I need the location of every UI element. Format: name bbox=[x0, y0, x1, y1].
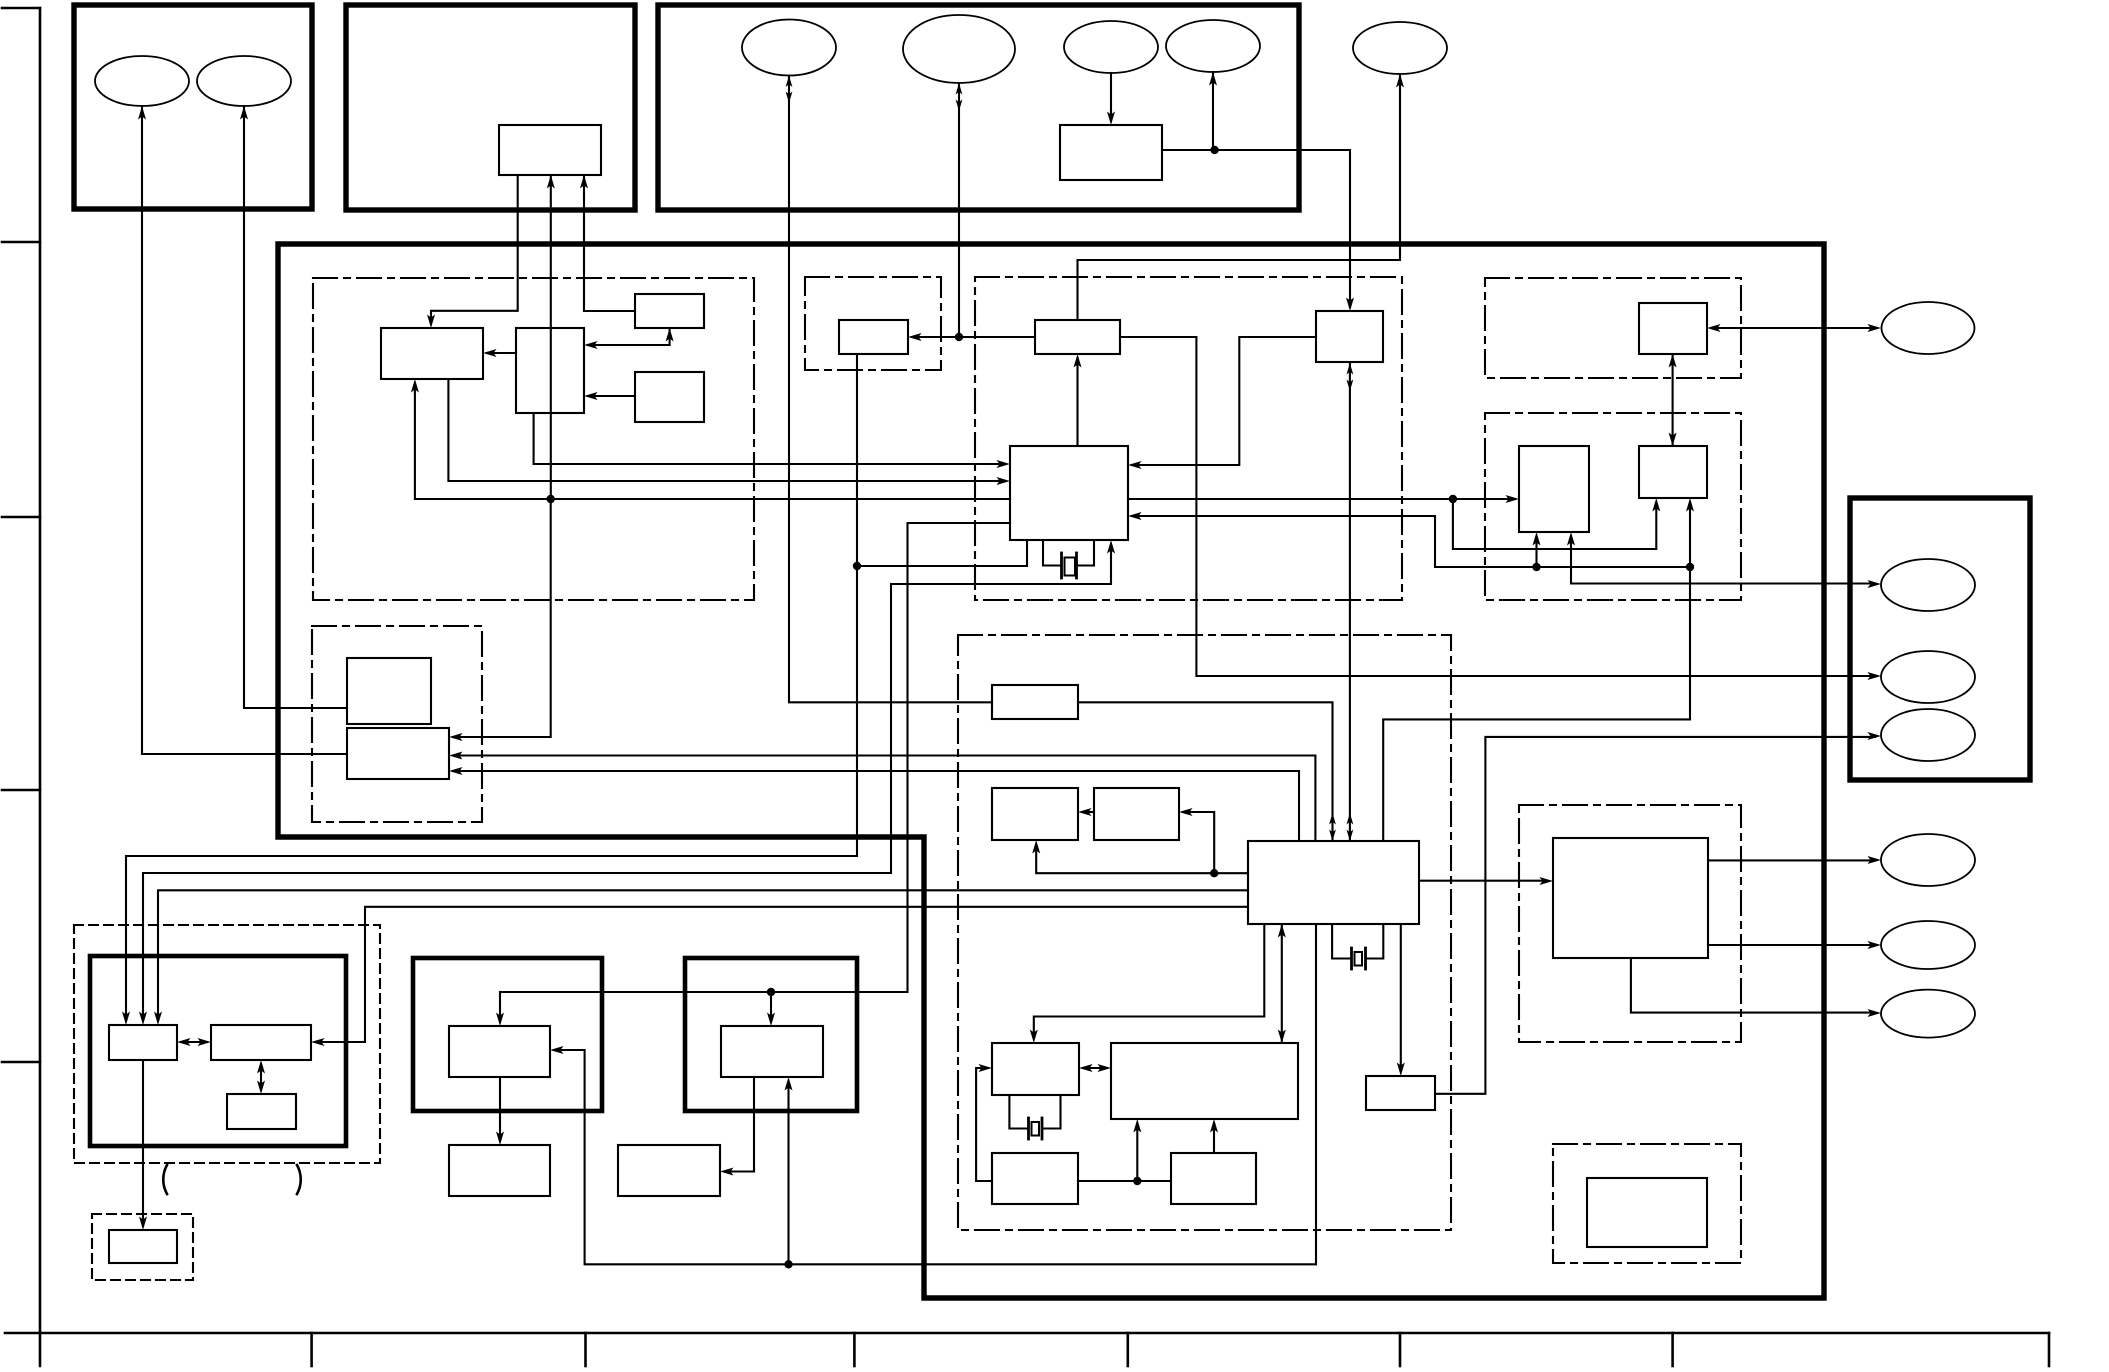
wire U2 out to P6 and F1 bbox=[1162, 72, 1354, 311]
junction N7 bbox=[1532, 563, 1540, 571]
junction N10 bbox=[1133, 1177, 1141, 1185]
wire subCPU H2 to J1a bbox=[1419, 877, 1553, 885]
block K2a bbox=[721, 1026, 823, 1077]
frame tick y=790 bbox=[2, 789, 40, 792]
label parenthesis left bbox=[163, 1165, 167, 1194]
wire N10 to H7 bbox=[1133, 1119, 1141, 1181]
connector ellipse Q2 bbox=[1881, 651, 1975, 703]
wire H5 to ellipse Q3 bbox=[1435, 732, 1881, 1094]
CPU block G bbox=[1010, 446, 1128, 540]
connector ellipse P4 bbox=[903, 15, 1015, 83]
wire CPU G to K-section bbox=[500, 523, 1010, 992]
wire K2a to K4 bbox=[720, 1077, 754, 1176]
wire J1 to ellipse R1 bbox=[1708, 856, 1881, 864]
block H9 bbox=[1171, 1153, 1256, 1204]
wire N7 to B1 bbox=[1533, 532, 1541, 567]
right connector box B4 bbox=[1850, 498, 2030, 780]
connector ellipse P1 bbox=[95, 56, 189, 106]
block E1 bbox=[1035, 320, 1120, 354]
wire M2 to subCPU H2 (line 1) bbox=[449, 752, 1315, 842]
frame tick x=312 bbox=[310, 1333, 313, 1366]
unit box K0 bbox=[90, 956, 346, 1146]
frame tick x=586 bbox=[584, 1333, 587, 1366]
connector ellipse P3 bbox=[742, 20, 836, 76]
block A1 bbox=[1639, 303, 1707, 354]
block L1 bbox=[109, 1025, 177, 1060]
block D1 bbox=[839, 320, 908, 354]
top unit box B3 bbox=[658, 5, 1299, 210]
wire P1 to block M2 bbox=[138, 106, 347, 754]
top unit box B2 bbox=[346, 5, 635, 210]
block B2 bbox=[1639, 446, 1707, 498]
block H8 bbox=[992, 1153, 1078, 1204]
frame tick x=1128 bbox=[1127, 1333, 1130, 1366]
wire C1 to CPU G bbox=[448, 379, 1010, 485]
wire D1 to L1 bbox=[122, 354, 857, 1025]
connector ellipse P7 bbox=[1353, 22, 1447, 74]
small dashed box S11 bbox=[92, 1214, 193, 1280]
block U1 in box B2 bbox=[499, 125, 601, 175]
block H5 bbox=[1366, 1076, 1435, 1110]
block H4 bbox=[1094, 788, 1179, 840]
section box S7 (dash-dot) bbox=[1519, 805, 1741, 1042]
junction N8 bbox=[1686, 563, 1694, 571]
wire C2 to C1 bbox=[483, 349, 516, 357]
wire P3 to H1 (bidirectional) bbox=[786, 76, 992, 703]
block H6 bbox=[992, 1043, 1079, 1095]
block H7 bbox=[1111, 1043, 1298, 1119]
section box S1 (dash-dot) bbox=[313, 278, 754, 600]
section box S3 (dash-dot) bbox=[975, 277, 1402, 600]
wire C3 to U1 bbox=[580, 175, 635, 311]
connector ellipse P5 bbox=[1064, 21, 1158, 73]
wire B-section to CPU G bbox=[1128, 512, 1690, 567]
block K3 bbox=[449, 1145, 550, 1196]
block C4 bbox=[635, 372, 704, 422]
unit box K1 bbox=[413, 958, 602, 1111]
wire H1 to subCPU H2 (bidirectional) bbox=[1078, 702, 1336, 841]
frame tick y=242 bbox=[2, 241, 40, 244]
main board outline (L-shaped) bbox=[278, 244, 1824, 1298]
wire F1 to CPU G bbox=[1128, 337, 1316, 469]
wire C3 to C2 (bidirectional) bbox=[584, 328, 674, 349]
block C3 bbox=[635, 294, 704, 328]
junction N2 bbox=[955, 333, 963, 341]
wire N2 to E1 bbox=[959, 336, 1035, 338]
wire P5 to U2 bbox=[1107, 73, 1115, 125]
block L4 bbox=[109, 1230, 177, 1263]
section box S8 (dash-dot) bbox=[1553, 1144, 1741, 1263]
connector ellipse R3 bbox=[1881, 990, 1975, 1038]
block M2 bbox=[347, 728, 449, 779]
wire J1 to ellipse R3 bbox=[1631, 958, 1881, 1017]
junction N3 bbox=[1210, 146, 1218, 154]
wire H7 to subCPU H2 (bidirectional) bbox=[1278, 924, 1286, 1043]
connector ellipse P2 bbox=[197, 56, 291, 106]
arrow into Q2 bbox=[1868, 672, 1882, 680]
block B1 bbox=[1519, 446, 1589, 532]
connector ellipse R2 bbox=[1881, 921, 1975, 969]
block C2 bbox=[516, 328, 584, 413]
wire H6 to H7 (bidirectional) bbox=[1079, 1064, 1111, 1072]
block J2 bbox=[1587, 1178, 1707, 1247]
wire N9 to H4 bbox=[1179, 808, 1214, 873]
wire subCPU H2 to K1a/K2a bbox=[550, 924, 1316, 1264]
junction N5 bbox=[767, 988, 775, 996]
crystal X3 circuit bbox=[1009, 1095, 1060, 1139]
block H3 bbox=[992, 788, 1078, 840]
wire B2 to subCPU H2 (bidirectional) bbox=[1383, 498, 1694, 841]
section outer box S10 (dashed) bbox=[74, 925, 380, 1163]
wire bus CPU G to L1 (bidirectional) bbox=[139, 540, 1115, 1025]
section box S9 (dash-dot) bbox=[312, 626, 482, 822]
block L2 bbox=[211, 1025, 311, 1060]
wire L1 to L2 (bidirectional) bbox=[177, 1038, 211, 1046]
frame tick x=1400 bbox=[1399, 1333, 1402, 1366]
connector ellipse Q1 bbox=[1881, 559, 1975, 611]
block C1 bbox=[381, 328, 483, 379]
section box S5 (dash-dot) bbox=[1485, 413, 1741, 600]
subCPU block H2 bbox=[1248, 841, 1419, 924]
wire H8 to H6 bbox=[976, 1064, 992, 1181]
wire U1 to C1 bbox=[427, 175, 518, 328]
unit box K2 bbox=[685, 958, 857, 1111]
junction N4 bbox=[853, 562, 861, 570]
wire E1 to output ellipse Q2 bbox=[1120, 337, 1875, 676]
block H1 bbox=[992, 685, 1078, 719]
block M1 bbox=[347, 658, 431, 724]
connector ellipse P6 bbox=[1166, 20, 1260, 72]
junction N6 bbox=[1449, 495, 1457, 503]
frame tick x=1673 bbox=[1671, 1333, 1674, 1366]
wire L2 to subCPU H2 bbox=[311, 907, 1248, 1046]
connector ellipse Q3 bbox=[1881, 709, 1975, 761]
block L3 bbox=[227, 1094, 296, 1129]
wire A1 to ellipse Q0 (bidirectional) bbox=[1707, 324, 1881, 332]
block J1 bbox=[1553, 838, 1708, 958]
wire H9 to H7 bbox=[1210, 1119, 1218, 1153]
section box S4 (dash-dot) bbox=[1485, 278, 1741, 378]
wire C2 to CPU G bbox=[534, 413, 1010, 468]
block F1 bbox=[1316, 311, 1383, 362]
frame tick x=854 bbox=[853, 1333, 856, 1366]
wire subCPU H2 to H3/H4 bbox=[1032, 840, 1248, 873]
crystal X2 circuit bbox=[1332, 924, 1383, 969]
wire K1a to K3 bbox=[496, 1077, 504, 1145]
wire H4 to H3 bbox=[1078, 808, 1094, 816]
wire node N1 to U1 bbox=[547, 175, 555, 499]
wire N11 to K2a bbox=[785, 1077, 793, 1264]
wire CPU G to E1 bbox=[1074, 354, 1082, 446]
wire L2 to L3 (bidirectional) bbox=[257, 1060, 265, 1094]
wire bus CPU G to B1/B2 bbox=[1128, 495, 1519, 503]
wire A1 to B2 (bidirectional) bbox=[1669, 354, 1677, 446]
block U2 in box B3 bbox=[1060, 125, 1162, 180]
wire N6 to B2 bbox=[1453, 498, 1660, 549]
frame tick y=1062 bbox=[2, 1061, 40, 1064]
wire J1 to ellipse R2 bbox=[1708, 941, 1881, 949]
wire M2 to subCPU H2 (line 2) bbox=[449, 767, 1299, 841]
wire L1 to L4 bbox=[139, 1060, 147, 1230]
block K4 bbox=[618, 1145, 720, 1196]
wire L1 to subCPU H2 bbox=[154, 890, 1248, 1025]
arrow into K1a bbox=[496, 992, 504, 1026]
junction N9 bbox=[1210, 869, 1218, 877]
junction N11 bbox=[784, 1260, 792, 1268]
wire P2 to block M1 bbox=[240, 106, 347, 708]
block K1a bbox=[449, 1026, 550, 1077]
wire subCPU H2 to H5 bbox=[1397, 924, 1405, 1076]
wire F1 to subCPU H2 (bidirectional) bbox=[1347, 362, 1354, 841]
label parenthesis right bbox=[297, 1165, 301, 1194]
drawing frame left border bbox=[2, 8, 40, 1366]
wire subCPU H2 to H6 bbox=[1030, 924, 1265, 1043]
section box S2 (dash-dot) bbox=[805, 277, 941, 370]
drawing frame bottom border bbox=[5, 1333, 2049, 1366]
wire E1 to P7 bbox=[1078, 74, 1405, 320]
frame tick y=517 bbox=[2, 516, 40, 519]
connector ellipse Q0 bbox=[1882, 302, 1975, 354]
top-left unit box B1 bbox=[74, 5, 312, 209]
wire B1 to ellipse Q1 (bidirectional) bbox=[1567, 532, 1881, 588]
wire N1 to M2 bbox=[449, 499, 551, 741]
wire P4 to node N2 bbox=[956, 83, 963, 337]
crystal X1 circuit bbox=[1043, 540, 1094, 578]
junction N1 bbox=[547, 495, 555, 503]
wire N5 to K2a bbox=[767, 992, 775, 1026]
wire C4 to C2 bbox=[584, 392, 635, 400]
wire N4 to CPU G bbox=[857, 540, 1027, 566]
wire N2 to D1 bbox=[908, 333, 959, 341]
wire H8 to H9 bbox=[1078, 1180, 1171, 1182]
section box S6 (dash-dot) bbox=[958, 635, 1451, 1230]
wire bus CPU G to C1 / node N1 bbox=[411, 379, 1010, 499]
connector ellipse R1 bbox=[1881, 834, 1975, 886]
